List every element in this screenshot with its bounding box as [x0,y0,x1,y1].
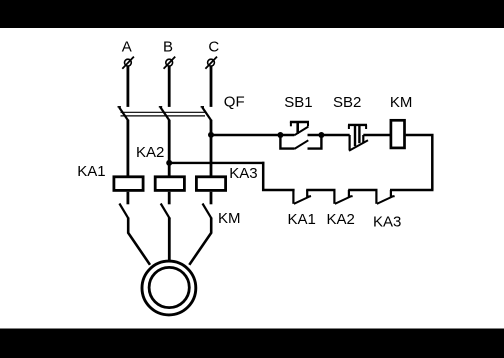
node junction B to control [166,160,172,166]
svg-text:KA1: KA1 [288,211,316,228]
svg-text:B: B [163,39,173,56]
breaker QF linkage bar [121,112,206,116]
terminal A [122,57,134,69]
wire B junction to loop corner [169,162,264,164]
svg-text:SB2: SB2 [333,94,361,111]
wire phase B below heater [168,192,171,205]
contactor KM main contact C [203,204,212,219]
contact KM self-hold branch [280,135,321,149]
svg-text:C: C [208,39,219,56]
coil KM label [390,94,413,111]
contact KA2 NC label [327,211,355,228]
wire loop left side [263,162,294,190]
svg-text:A: A [122,39,132,56]
motor M inner circle [149,267,189,307]
button SB1 moving blade [294,127,308,136]
wire rail KA2 to KA3 [348,189,377,192]
contact KA1 NC label [288,211,316,228]
svg-text:SB1: SB1 [284,94,312,111]
node dot SB1 left [277,132,283,138]
relay KA1 label [77,163,105,180]
relay KA3 label [229,165,257,182]
contact KA3 NC label [373,213,401,230]
relay KA2 label [136,144,164,161]
breaker QF pole C [201,107,212,121]
wire to motor B [168,218,171,262]
wire rail KA1 to KA2 [306,189,335,192]
wire phase A mid [127,120,130,176]
wire rail SB1 to SB2 [308,134,350,136]
svg-text:KM: KM [390,94,413,111]
svg-text:KM: KM [218,210,241,227]
wire phase B upper [168,66,171,107]
breaker QF pole B [159,107,170,121]
svg-text:QF: QF [224,93,245,110]
node B label [163,39,173,56]
svg-text:KA2: KA2 [136,144,164,161]
button SB2 label [333,94,361,111]
breaker QF pole A [118,107,129,121]
contactor KM main contact B [161,204,170,219]
motor M outer circle [142,261,196,315]
wire control top rail left [211,134,294,136]
relay heater KA3 [196,177,225,191]
button SB1 label [284,94,312,111]
wire phase A upper [127,66,130,107]
wire rail coil to right corner [406,135,433,190]
terminal B [164,57,176,69]
svg-text:KA3: KA3 [229,165,257,182]
button SB1 actuator [290,122,309,134]
button SB2 actuator [348,125,367,146]
contact KA3 NC [376,189,394,204]
svg-text:KA3: KA3 [373,213,401,230]
wire to motor A [128,218,150,265]
terminal C [205,57,217,69]
contact KA2 NC [334,189,352,204]
contactor KM main contact A [119,204,128,219]
button SB2 contact [349,135,368,151]
node dot SB1 right [318,132,324,138]
node C label [208,39,219,56]
wire phase A below heater [127,192,130,205]
wire phase B mid [168,120,171,176]
relay heater KA2 [155,177,184,191]
contact KA1 NC [293,189,311,204]
svg-text:KA1: KA1 [77,163,105,180]
wire phase C below heater [210,192,213,205]
wire rail KA3 to right corner [390,189,434,192]
relay heater KA1 [114,177,143,191]
wire rail SB2 to coil [363,134,390,136]
contactor KM label [218,210,241,227]
node junction C to control [208,132,214,138]
coil KM [391,120,405,148]
node A label [122,39,132,56]
wire phase C mid [210,120,213,176]
breaker QF label [224,93,245,110]
wire to motor C [189,218,211,265]
wire phase C upper [210,66,213,107]
svg-text:KA2: KA2 [327,211,355,228]
